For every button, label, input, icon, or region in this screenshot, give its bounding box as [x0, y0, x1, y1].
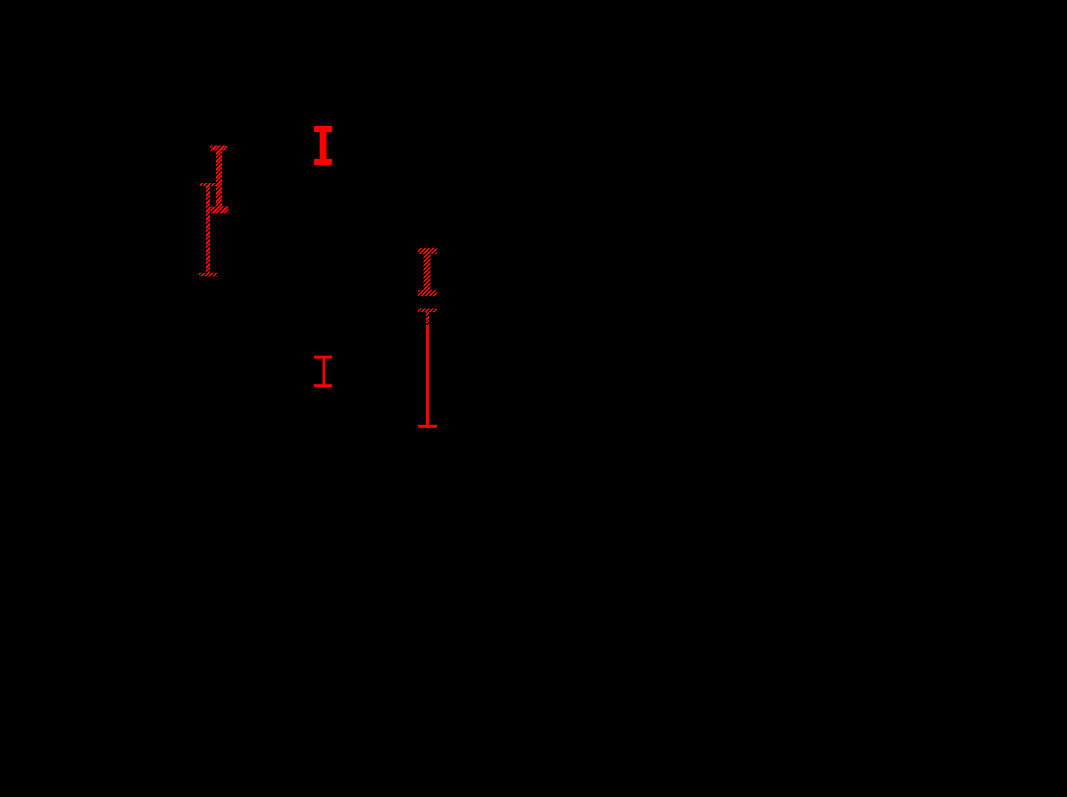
error bar E2b stem — [206, 183, 210, 277]
error bar E4 solid stem — [426, 325, 429, 428]
error bar E3 bottom cap — [418, 290, 437, 296]
error bar E4 hatched stem segment — [426, 312, 429, 327]
error bar E5 (solid thin I) top cap — [314, 356, 332, 359]
error bar E2a (hatched, upper-left) top cap — [210, 146, 227, 151]
error bar E4 solid bottom cap — [418, 425, 437, 428]
error bar E2b bottom cap — [199, 273, 218, 276]
error bar E1 bottom cap — [314, 159, 332, 165]
error bar E5 stem — [323, 356, 326, 387]
error bar E3 (hatched I) top cap — [418, 248, 437, 254]
error bar E2a bottom cap — [211, 206, 229, 213]
error bar E5 bottom cap — [314, 384, 332, 387]
error bar E2b (hatched, thin, left) top cap — [199, 183, 216, 186]
error bar E3 stem — [424, 248, 431, 296]
error bar E1 (solid thick I) top cap — [314, 126, 332, 132]
error bar E1 stem — [320, 126, 327, 165]
error bar E4 hatched top cap — [418, 309, 437, 313]
error bar E2a stem — [216, 146, 222, 214]
